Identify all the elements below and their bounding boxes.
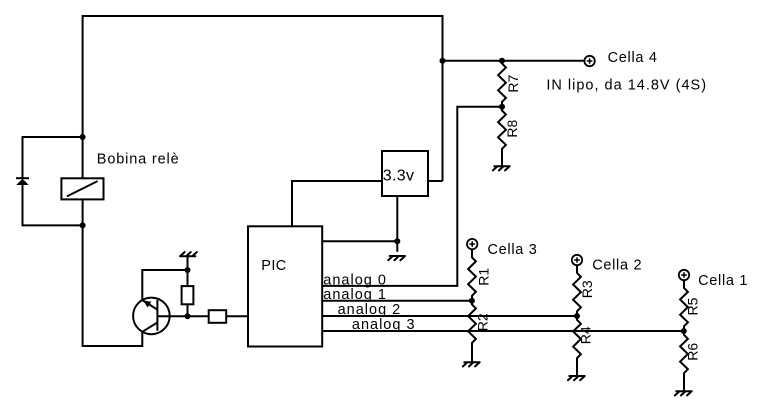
svg-text:R6: R6 xyxy=(684,343,700,361)
svg-text:3.3v: 3.3v xyxy=(383,167,414,184)
ground under 3.3v xyxy=(388,256,405,260)
resistor R4 xyxy=(573,316,581,376)
svg-text:Cella 2: Cella 2 xyxy=(592,257,642,273)
wire relay coil top lead xyxy=(82,137,84,178)
IC U1 PIC box xyxy=(248,226,322,346)
svg-text:analog 1: analog 1 xyxy=(323,287,387,303)
node R1/R2 junction xyxy=(469,298,475,304)
terminal Cella 4 xyxy=(584,56,594,66)
terminal Cella 2 xyxy=(572,255,582,265)
wire Cella 4 feed from rail xyxy=(443,60,585,62)
power symbol (flipped chassis) above transistor xyxy=(180,252,197,270)
svg-text:R4: R4 xyxy=(578,326,594,344)
node R7/R8 junction xyxy=(499,104,505,110)
ground under R6 xyxy=(675,391,692,395)
diode D1 flyback xyxy=(16,178,83,225)
wire analog 0 net to R7/R8 junction xyxy=(322,107,502,286)
wire analog 1 net xyxy=(322,300,472,302)
node 3.3v ground junction xyxy=(394,238,400,244)
node relay bottom junction xyxy=(80,222,86,228)
terminal Cella 1 xyxy=(679,270,689,280)
svg-text:analog 2: analog 2 xyxy=(338,302,402,318)
resistor R7 xyxy=(498,61,506,107)
svg-text:analog 0: analog 0 xyxy=(323,272,387,288)
resistor R6 xyxy=(680,331,688,391)
svg-text:Cella 1: Cella 1 xyxy=(698,273,748,289)
node relay top junction xyxy=(80,134,86,140)
svg-text:R1: R1 xyxy=(476,268,492,286)
wire diode branch left from relay top node xyxy=(23,137,83,178)
svg-text:analog 3: analog 3 xyxy=(352,317,416,333)
node R7 top junction xyxy=(499,58,505,64)
svg-text:R2: R2 xyxy=(475,313,491,331)
svg-text:R7: R7 xyxy=(505,74,521,92)
wire emitter to rail xyxy=(142,270,187,300)
wire 3.3v right to rail xyxy=(428,180,443,182)
resistor R9 base pull-up (box style) xyxy=(182,270,194,316)
svg-text:R8: R8 xyxy=(504,119,520,137)
wire main supply loop: relay top up, across top, down to 3.3v right xyxy=(83,16,443,181)
svg-text:Cella 4: Cella 4 xyxy=(608,50,658,66)
svg-text:IN lipo, da 14.8V (4S): IN lipo, da 14.8V (4S) xyxy=(546,77,707,93)
svg-text:PIC: PIC xyxy=(261,258,286,274)
wire PIC top to 3.3v left xyxy=(292,181,382,226)
svg-text:R5: R5 xyxy=(685,297,701,315)
ground under R8 xyxy=(493,166,510,170)
svg-text:Cella 3: Cella 3 xyxy=(488,242,538,258)
relay coil K1 (Bobina relè) xyxy=(61,178,103,199)
resistor R5 xyxy=(680,280,688,331)
node emitter rail junction xyxy=(185,267,191,273)
resistor R10 base series (box style) xyxy=(209,310,248,323)
ground under R4 xyxy=(568,376,585,380)
svg-text:R3: R3 xyxy=(579,280,595,298)
wire relay coil bottom lead xyxy=(82,199,84,225)
terminal Cella 3 xyxy=(467,239,477,249)
node R5/R6 junction xyxy=(681,328,687,334)
node base/pull-up junction xyxy=(185,313,191,319)
regulator U2 3.3v box xyxy=(382,151,428,196)
wire 3.3v bottom to ground node xyxy=(396,196,398,252)
node R3/R4 junction xyxy=(574,313,580,319)
wire analog 2 net xyxy=(322,315,577,317)
transistor Q1 PNP xyxy=(133,298,170,335)
wire PIC right to 3.3v ground node xyxy=(322,240,397,242)
node rail/Cella4 junction xyxy=(440,58,446,64)
wire transistor base line xyxy=(157,315,208,317)
resistor R3 xyxy=(573,265,581,316)
wire relay bottom to transistor collector xyxy=(83,225,143,346)
ground under R2 xyxy=(463,362,480,366)
svg-text:Bobina relè: Bobina relè xyxy=(97,151,180,167)
resistor R2 xyxy=(468,301,476,362)
resistor R8 xyxy=(498,107,506,166)
wire analog 3 net xyxy=(322,330,684,332)
resistor R1 xyxy=(468,249,476,300)
